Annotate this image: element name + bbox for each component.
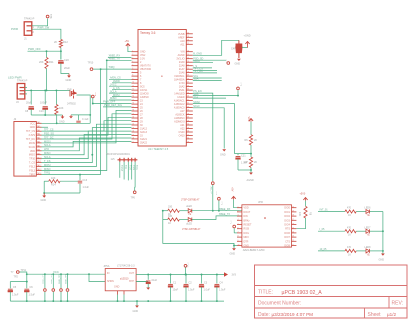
U1 right pin wires group2	[193, 93, 213, 181]
test point TP2 xbee	[218, 197, 221, 200]
svg-text:GND: GND	[133, 310, 139, 313]
svg-text:60: 60	[187, 32, 189, 34]
test point TP1 xbee	[211, 182, 214, 185]
svg-text:20uF: 20uF	[26, 102, 32, 105]
svg-text:T_CS: T_CS	[29, 162, 36, 165]
svg-text:13: 13	[292, 236, 294, 238]
svg-text:48: 48	[187, 78, 189, 80]
resistor R5 330 bottom branch	[163, 219, 168, 221]
svg-text:J1: J1	[24, 37, 27, 41]
svg-text:PA7: PA7	[37, 145, 40, 148]
wire 10_05 net	[318, 250, 345, 252]
svg-text:11: 11	[292, 244, 294, 246]
wire LED7 to common	[370, 230, 383, 232]
svg-text:TP8: TP8	[49, 14, 52, 19]
svg-text:µ1/2: µ1/2	[387, 312, 396, 317]
capacitor C8 20uF	[29, 106, 34, 108]
svg-text:LED7: LED7	[365, 226, 372, 229]
wire R14 to C13	[60, 180, 80, 182]
svg-text:1.0uF: 1.0uF	[241, 162, 248, 165]
resistor R1 470	[345, 210, 356, 213]
svg-text:18: 18	[292, 215, 294, 217]
svg-text:INT_01: INT_01	[320, 209, 329, 212]
svg-text:2: 2	[132, 54, 133, 56]
svg-text:13: 13	[132, 92, 134, 94]
svg-text:TRST: TRST	[120, 165, 123, 172]
svg-text:43: 43	[187, 96, 189, 98]
test point TP3 xbee left	[233, 225, 236, 228]
svg-text:1.0uF: 1.0uF	[83, 186, 90, 189]
wire J2 MOSI net	[42, 110, 132, 143]
svg-text:35: 35	[187, 124, 189, 126]
offpage arrow VCC out	[224, 272, 228, 276]
svg-text:GND_TP6: GND_TP6	[51, 273, 53, 284]
svg-text:SCL0: SCL0	[193, 105, 200, 108]
test point TP9	[237, 87, 240, 90]
svg-text:C10: C10	[39, 110, 44, 113]
svg-text:59: 59	[187, 36, 189, 38]
svg-text:55: 55	[187, 54, 189, 56]
svg-text:TP2: TP2	[94, 92, 96, 97]
wire C20 to GND	[61, 63, 69, 73]
J2 pin numbers	[37, 121, 41, 175]
svg-text:22: 22	[132, 124, 134, 126]
wire J2 T_CS net	[42, 128, 132, 163]
svg-text:PWR_SW: PWR_SW	[38, 25, 50, 29]
svg-text:uLED: uLED	[186, 205, 192, 208]
resistor R14 10K below J2	[44, 180, 49, 182]
svg-text:DIO4: DIO4	[284, 224, 290, 227]
svg-text:PA4: PA4	[37, 133, 40, 136]
svg-text:TP11: TP11	[21, 269, 27, 272]
svg-text:5: 5	[132, 64, 133, 66]
wire R7 bottom	[250, 167, 252, 172]
svg-text:PWR_DET_SIG: PWR_DET_SIG	[104, 104, 122, 107]
wire bottom GND rail	[10, 300, 224, 302]
svg-text:Teensy 3.6: Teensy 3.6	[140, 31, 156, 35]
svg-text:44: 44	[187, 92, 189, 94]
supply +5V to U1 VIN	[126, 44, 130, 46]
ground GND below caps	[62, 115, 64, 117]
wire B_GND net to C14	[193, 40, 239, 55]
svg-text:TDO: TDO	[128, 165, 131, 170]
svg-text:DIO7: DIO7	[284, 236, 290, 239]
svg-text:TP2: TP2	[221, 201, 223, 206]
test point TP8 VIN	[46, 15, 49, 18]
svg-text:C5: C5	[13, 286, 17, 289]
test point TP6	[133, 191, 136, 194]
svg-text:GND: GND	[379, 259, 385, 262]
LED LED8	[356, 250, 366, 252]
svg-text:R8: R8	[309, 212, 312, 216]
ground GND below R14	[43, 193, 45, 196]
svg-text:ZVP: ZVP	[67, 88, 72, 91]
LED LED7	[356, 230, 366, 232]
resistor R6 2K	[249, 135, 252, 145]
svg-text:16: 16	[132, 103, 134, 105]
ground GND left of C11	[70, 115, 72, 116]
svg-text:JTSF-C8768147: JTSF-C8768147	[182, 228, 201, 231]
supply VCC arrow pullups	[249, 119, 253, 121]
svg-text:1K: 1K	[348, 234, 351, 237]
svg-text:BYP: BYP	[129, 280, 134, 283]
svg-text:6: 6	[132, 68, 133, 70]
wire +5V to XBee VDD	[234, 200, 242, 208]
svg-text:A824-BM61T-J250: A824-BM61T-J250	[243, 248, 265, 252]
header J4 pin wires	[119, 162, 121, 178]
svg-text:10_05: 10_05	[320, 248, 328, 251]
svg-text:42: 42	[187, 99, 189, 101]
svg-text:SHDN: SHDN	[107, 280, 114, 283]
RF module U2 XBee	[242, 205, 292, 247]
svg-text:41: 41	[187, 103, 189, 105]
resistor R12 2K	[59, 40, 62, 48]
svg-text:10: 10	[132, 82, 134, 84]
svg-text:DIO6: DIO6	[284, 232, 290, 235]
svg-text:PA10: PA10	[37, 156, 41, 159]
connector J3 LED PWR	[17, 84, 25, 100]
output capacitor C3 1.0uF	[201, 275, 203, 284]
svg-text:7: 7	[132, 71, 133, 73]
wire LED common vertical	[382, 212, 384, 254]
svg-text:8: 8	[238, 236, 239, 238]
svg-text:µ3/23/2019 4:07 PM: µ3/23/2019 4:07 PM	[272, 312, 314, 317]
svg-text:DIO3: DIO3	[284, 219, 290, 222]
svg-text:TFT_DC: TFT_DC	[26, 138, 35, 141]
U1 left pin wires with labels	[109, 78, 132, 80]
wire C14 to GND arrow	[242, 47, 248, 49]
svg-text:3: 3	[132, 57, 133, 59]
wire J2 MOSI net	[42, 124, 132, 166]
svg-text:1.0uF: 1.0uF	[204, 289, 211, 292]
svg-text:TY: TY	[11, 271, 14, 274]
svg-text:1K: 1K	[348, 214, 351, 217]
wire R6 to junction	[250, 145, 252, 157]
svg-text:PA5: PA5	[37, 137, 40, 140]
output capacitor C1 10uF	[170, 275, 172, 284]
svg-text:TIRQ: TIRQ	[109, 66, 115, 69]
wire R8 to U2 RTS pin	[296, 218, 305, 229]
svg-text:GND_TP5: GND_TP5	[43, 273, 45, 284]
svg-text:1.5uF: 1.5uF	[12, 294, 19, 297]
svg-text:MOSI: MOSI	[29, 142, 35, 145]
wire VCC to R6	[250, 122, 252, 135]
svg-text:DIO1: DIO1	[284, 211, 290, 214]
svg-text:26: 26	[132, 138, 134, 140]
svg-text:470: 470	[347, 246, 352, 249]
svg-text:16: 16	[292, 223, 294, 225]
svg-text:10uF: 10uF	[173, 289, 179, 292]
svg-text:Date:: Date:	[258, 312, 270, 318]
wire J2 GND	[42, 126, 49, 128]
svg-text:20K: 20K	[39, 60, 44, 64]
svg-text:1K: 1K	[348, 253, 351, 256]
wire LED PWR rail	[25, 89, 70, 91]
svg-text:+5V: +5V	[125, 40, 130, 43]
svg-text:.01uF: .01uF	[151, 279, 158, 282]
svg-text:15: 15	[292, 227, 294, 229]
svg-text:2K: 2K	[54, 40, 57, 44]
svg-text:T_CS: T_CS	[44, 160, 51, 163]
wire I2C SDA long	[193, 104, 235, 154]
svg-text:10: 10	[238, 244, 240, 246]
svg-text:TFT_DC: TFT_DC	[193, 70, 203, 73]
wire U3 GND pin to rail	[117, 291, 119, 295]
resistor R8 10K pullup	[305, 201, 307, 207]
microcontroller U1 Teensy 3.6	[138, 30, 186, 147]
U1 right pin stubs	[186, 34, 193, 143]
wire R13 bottom to VCC wire	[56, 115, 58, 123]
svg-text:DTR: DTR	[244, 240, 249, 243]
test point TP11 VCC rail	[16, 271, 19, 274]
svg-text:11: 11	[132, 85, 134, 87]
wire XBee branch left vertical	[163, 211, 234, 246]
wire TP5 down to PWR_OFF net	[92, 98, 94, 104]
svg-text:MISO: MISO	[44, 152, 50, 155]
wire J2 LPO net	[42, 138, 132, 151]
wire U2 GND pin down	[234, 246, 237, 249]
wire VCC rail to U3 SHDN	[89, 274, 105, 281]
svg-text:RTS: RTS	[285, 228, 290, 231]
svg-text:330: 330	[168, 215, 173, 218]
svg-text:TIRQ: TIRQ	[44, 172, 50, 175]
svg-text:51: 51	[187, 68, 189, 70]
svg-text:3V3: 3V3	[232, 274, 237, 277]
svg-text:XB_TP: XB_TP	[210, 187, 212, 195]
svg-text:12: 12	[292, 240, 294, 242]
svg-text:14: 14	[132, 96, 134, 98]
svg-text:C20: C20	[64, 58, 69, 62]
svg-text:1.5uF: 1.5uF	[188, 289, 195, 292]
svg-text:9: 9	[238, 240, 239, 242]
svg-text:3: 3	[238, 215, 239, 217]
svg-text:LED6: LED6	[365, 207, 372, 210]
svg-text:330: 330	[168, 206, 173, 209]
wire TIRQ to U1	[93, 68, 131, 70]
wire PWR_SW net	[32, 29, 61, 39]
U2 pin numbers	[238, 206, 295, 246]
svg-text:27: 27	[132, 141, 134, 143]
svg-text:TPA42-P: TPA42-P	[24, 17, 35, 21]
svg-text:9: 9	[132, 78, 133, 80]
svg-text:+5V: +5V	[231, 187, 234, 192]
svg-text:FSL3: FSL3	[29, 170, 35, 173]
supply +5V xbee VDD	[232, 196, 236, 198]
svg-text:49: 49	[187, 75, 189, 77]
svg-text:DIO2: DIO2	[284, 215, 290, 218]
wire J2 TIRQ net	[42, 69, 101, 174]
svg-text:23: 23	[132, 127, 134, 129]
svg-text:XBEE_TX: XBEE_TX	[109, 58, 121, 61]
svg-text:52: 52	[187, 64, 189, 66]
svg-text:GND: GND	[230, 253, 236, 256]
svg-text:R6: R6	[245, 139, 249, 142]
LED D3 bottom branch	[179, 219, 188, 221]
svg-text:LT1764CS8-3.3: LT1764CS8-3.3	[117, 265, 135, 268]
svg-text:TP10: TP10	[29, 158, 35, 161]
svg-text:SCLA: SCLA	[44, 156, 51, 159]
svg-text:C4F: C4F	[231, 48, 236, 51]
wire XBEE_RX to U1	[108, 57, 132, 59]
capacitor C14 polarized	[236, 40, 242, 58]
J2 pin stubs	[36, 123, 41, 174]
U2 center mark	[264, 217, 266, 219]
svg-text:C3: C3	[204, 282, 208, 285]
svg-text:+5V0: +5V0	[300, 193, 306, 196]
LED D2 top branch	[179, 210, 188, 212]
svg-text:A11: A11	[180, 43, 185, 46]
svg-text:GND: GND	[220, 154, 226, 157]
svg-text:GND: GND	[235, 63, 241, 66]
output capacitor C4 1.5uF	[216, 275, 218, 284]
svg-text:LPO: LPO	[44, 148, 49, 151]
svg-text:DIN: DIN	[244, 215, 248, 218]
svg-text:C.1uF: C.1uF	[82, 118, 89, 121]
wire cap bus verticals	[30, 90, 32, 104]
svg-text:12: 12	[132, 89, 134, 91]
wire I_05 net	[318, 230, 345, 232]
svg-text:YE: YE	[367, 234, 371, 237]
capacitor C21 1.0uF	[235, 153, 252, 155]
svg-text:1: 1	[132, 50, 133, 52]
wire J4 pin5 to TP6	[134, 162, 136, 191]
svg-text:PA14: PA14	[37, 172, 41, 175]
svg-text:37: 37	[187, 117, 189, 119]
svg-text:2K: 2K	[254, 139, 257, 142]
svg-text:GND: GND	[244, 245, 250, 248]
svg-text:TP1: TP1	[215, 191, 217, 196]
svg-text:20uF: 20uF	[64, 66, 70, 70]
svg-text:32: 32	[187, 134, 189, 136]
output capacitor C2 1.5uF	[185, 275, 187, 284]
capacitor C13 1.0uF	[79, 175, 81, 181]
svg-text:uLED: uLED	[186, 223, 192, 226]
svg-text:XBEE_RX: XBEE_RX	[219, 208, 231, 211]
svg-text:TITLE:: TITLE:	[258, 290, 273, 296]
svg-text:µPCB 1903 02_A: µPCB 1903 02_A	[282, 290, 323, 296]
wire top branch to XBEE_RX	[192, 210, 242, 212]
svg-text:GND: GND	[66, 78, 72, 82]
capacitor C5 1.5uF	[9, 282, 11, 289]
svg-text:TMS: TMS	[132, 165, 135, 170]
svg-text:21: 21	[132, 120, 134, 122]
svg-text:19: 19	[132, 113, 134, 115]
svg-text:45: 45	[187, 89, 189, 91]
svg-text:10K: 10K	[298, 212, 301, 217]
svg-text:15: 15	[132, 99, 134, 101]
svg-text:B_GND: B_GND	[193, 52, 202, 55]
svg-text:2: 2	[238, 211, 239, 213]
capacitor C10 100uF	[43, 106, 48, 108]
wire J2 TFT_CS net	[42, 121, 132, 131]
title block frame	[255, 265, 408, 318]
svg-text:U1= TEENSY 4.5: U1= TEENSY 4.5	[148, 147, 169, 151]
test points GND_TP row	[44, 274, 46, 288]
svg-text:REV:: REV:	[392, 301, 403, 307]
svg-text:8: 8	[132, 75, 133, 77]
svg-text:DIOx: DIOx	[244, 232, 250, 235]
svg-text:MOSI: MOSI	[44, 140, 51, 143]
svg-text:+GND: +GND	[244, 35, 251, 38]
svg-text:TP2: TP2	[14, 276, 19, 279]
svg-text:PA3: PA3	[37, 129, 40, 132]
svg-text:I_05: I_05	[319, 228, 325, 231]
svg-text:LED8: LED8	[365, 246, 372, 249]
wire J2 PSD_SD net	[42, 117, 132, 135]
svg-text:1: 1	[33, 26, 35, 29]
svg-text:470: 470	[347, 226, 352, 229]
svg-text:R11: R11	[49, 60, 54, 64]
svg-text:R14: R14	[51, 184, 56, 187]
resistor R13 10K	[55, 105, 58, 115]
svg-text:PA12: PA12	[37, 164, 41, 167]
wire R11 bottom to LED PWR rail	[46, 69, 48, 91]
svg-text:SCLA: SCLA	[44, 144, 51, 147]
svg-text:17: 17	[292, 219, 294, 221]
svg-text:PSD_SD: PSD_SD	[44, 132, 54, 135]
svg-text:VDD: VDD	[30, 150, 35, 153]
U1 right pin wires group1	[193, 59, 226, 61]
ground GND mid	[222, 149, 226, 151]
U1 pin names	[140, 33, 185, 145]
svg-text:57: 57	[187, 43, 189, 45]
svg-text:GND: GND	[114, 286, 120, 289]
svg-text:XBEE_TX: XBEE_TX	[219, 213, 231, 216]
svg-text:SCL: SCL	[193, 95, 198, 98]
svg-text:30: 30	[187, 141, 189, 143]
wire VCC rail	[20, 272, 27, 274]
svg-text:3.3VS: 3.3VS	[28, 134, 35, 137]
svg-text:46: 46	[187, 85, 189, 87]
svg-text:MISO: MISO	[44, 168, 50, 171]
svg-text:35A22: 35A22	[140, 141, 148, 144]
ground GND bottom rail	[136, 301, 138, 305]
test point TP4 TIRQ	[90, 68, 93, 71]
wire XBEE_TX to U1	[107, 59, 132, 61]
svg-text:14: 14	[292, 232, 294, 234]
svg-text:20: 20	[132, 117, 134, 119]
svg-text:25: 25	[132, 134, 134, 136]
svg-text:uSDA: uSDA	[193, 60, 200, 63]
svg-text:PA9: PA9	[37, 152, 40, 155]
svg-text:TP9: TP9	[239, 82, 241, 87]
svg-text:TCK: TCK	[135, 165, 138, 170]
svg-text:VCC: VCC	[247, 117, 250, 122]
svg-text:19: 19	[292, 211, 294, 213]
ground GND below C14	[237, 59, 241, 61]
svg-text:TFT_DC: TFT_DC	[44, 136, 54, 139]
wire cap bottoms to GND rail	[30, 109, 32, 115]
svg-text:RSSI: RSSI	[244, 228, 250, 231]
svg-text:54: 54	[187, 57, 189, 59]
svg-text:TDI: TDI	[124, 165, 127, 169]
svg-text:38: 38	[187, 113, 189, 115]
transistor Q1 P-FET	[70, 90, 77, 99]
svg-text:RESET: RESET	[244, 224, 253, 227]
svg-text:1K: 1K	[168, 222, 171, 225]
svg-text:2K: 2K	[254, 161, 257, 164]
svg-text:OUT: OUT	[129, 272, 135, 275]
svg-text:56: 56	[187, 50, 189, 52]
svg-text:MISO: MISO	[29, 154, 35, 157]
svg-text:SDA0: SDA0	[193, 101, 200, 104]
svg-text:BRKz: BRKz	[244, 219, 251, 222]
svg-text:J2: J2	[14, 117, 17, 121]
test point TP12 on out rail	[184, 264, 187, 267]
svg-text:TFT_CS: TFT_CS	[26, 130, 35, 133]
svg-text:DIO8: DIO8	[284, 245, 290, 248]
svg-text:TP6: TP6	[131, 197, 136, 200]
